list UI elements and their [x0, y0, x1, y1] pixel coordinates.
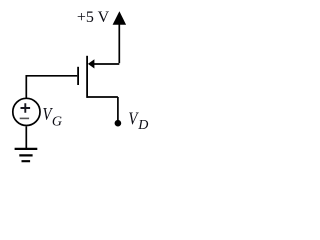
transistor Q1 gate bar	[77, 67, 79, 85]
svg-text:+5 V: +5 V	[77, 9, 110, 26]
plus sign	[21, 103, 31, 113]
voltage source VG circle	[13, 98, 40, 125]
wire: drain vertical down	[117, 97, 119, 121]
wire: source lead horizontal	[94, 63, 120, 65]
svg-text:G: G	[52, 114, 62, 129]
transistor Q1 channel line	[86, 56, 88, 98]
wire: source bottom to ground	[25, 126, 27, 148]
node VD dot	[115, 120, 122, 127]
VDD supply arrow	[113, 11, 127, 24]
wire: supply vertical	[118, 24, 120, 63]
wire: gate lead vertical down to source	[25, 75, 27, 98]
source arrowhead into channel	[88, 59, 95, 68]
wire: gate lead horizontal	[26, 75, 77, 77]
ground	[15, 149, 38, 161]
svg-text:D: D	[137, 118, 148, 133]
minus sign	[20, 117, 29, 119]
wire: drain lead horizontal	[88, 96, 118, 98]
